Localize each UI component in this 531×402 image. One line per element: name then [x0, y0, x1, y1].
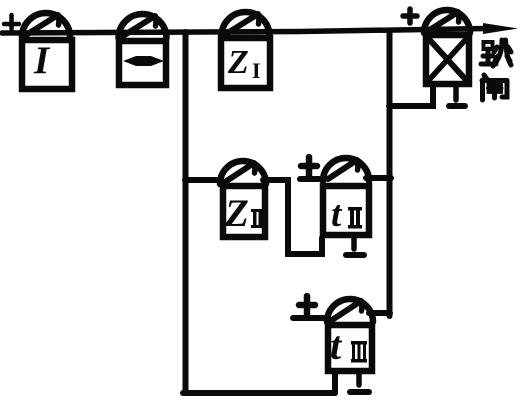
svg-text:I: I	[33, 39, 51, 82]
svg-text:Z: Z	[224, 192, 249, 235]
svg-text:t: t	[330, 323, 343, 368]
svg-text:t: t	[331, 194, 343, 235]
svg-text:I: I	[252, 58, 261, 83]
svg-text:Z: Z	[227, 44, 249, 81]
